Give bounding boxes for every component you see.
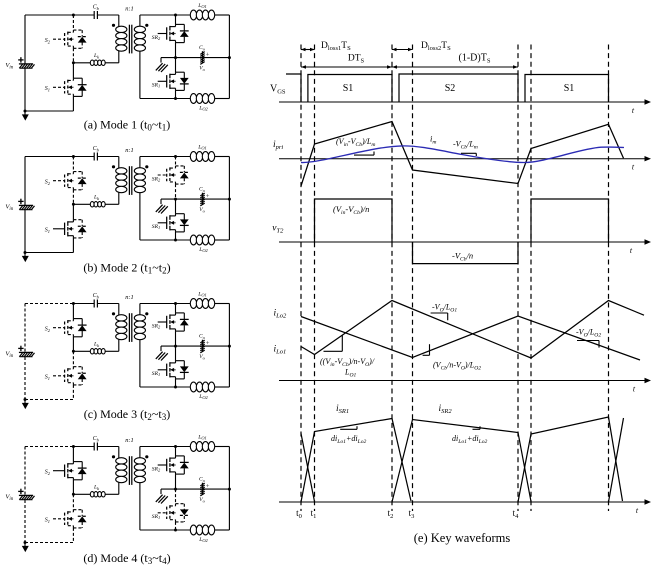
wire Dloss2 measure arrow xyxy=(392,41,451,52)
svg-text:S1: S1 xyxy=(45,228,50,234)
svg-text:SR2: SR2 xyxy=(152,466,161,472)
wire mid node to Lk xyxy=(73,350,90,352)
transistor S1 c xyxy=(53,351,87,399)
source Vin xyxy=(19,352,35,356)
ground input xyxy=(22,543,29,553)
svg-text:Cb: Cb xyxy=(93,436,100,442)
node top rail junction xyxy=(72,14,75,17)
svg-text:DTS: DTS xyxy=(348,54,365,65)
node VGS axis xyxy=(279,99,651,115)
transistor SR1 b xyxy=(158,199,189,240)
wire (1-D)TS measure arrow xyxy=(392,53,518,69)
svg-text:Cb: Cb xyxy=(93,293,100,299)
svg-text:SR1: SR1 xyxy=(152,82,160,88)
wire Lo1 to output rail xyxy=(215,14,230,16)
slope mark iLo2 falling xyxy=(577,341,599,348)
svg-text:Vin: Vin xyxy=(5,203,13,212)
node iLo axis xyxy=(279,378,651,394)
wire Dloss1 measure arrow xyxy=(301,41,351,52)
timing grid dashed verticals t0 t1 t2 t3 t4 t5 t6 xyxy=(301,45,609,512)
wire left rail upper xyxy=(24,304,26,353)
svg-text:S2: S2 xyxy=(45,469,51,475)
wire secondary mid xyxy=(161,57,229,59)
svg-text:Dloss1TS: Dloss1TS xyxy=(321,41,351,52)
transistor SR2 c xyxy=(158,304,189,347)
inductor Lo1 xyxy=(190,299,214,309)
transformer primary dot xyxy=(112,24,115,27)
node SR1 source xyxy=(174,386,177,389)
slope mark iLo1 rising xyxy=(324,335,343,351)
transistor SR2 b xyxy=(158,157,189,200)
wire secondary mid xyxy=(161,345,229,347)
ground secondary xyxy=(156,346,168,360)
svg-text:n:1: n:1 xyxy=(125,147,134,154)
wire DTS measure arrow xyxy=(301,54,392,69)
transistor S1 a xyxy=(53,63,87,111)
node top rail junction xyxy=(72,445,75,448)
wire iLo2 waveform xyxy=(301,316,640,360)
wire Lk to primary winding xyxy=(105,51,119,63)
inductor Lo1 xyxy=(190,10,214,20)
wire left rail upper xyxy=(24,15,26,64)
svg-text:Lk: Lk xyxy=(93,53,100,59)
wire input top rail left xyxy=(25,156,73,158)
svg-text:SR1: SR1 xyxy=(152,514,160,520)
svg-text:LO1: LO1 xyxy=(344,368,356,379)
node SR2 drain xyxy=(174,445,177,448)
node primary mid xyxy=(72,350,75,353)
wire input top rail left xyxy=(25,14,73,16)
transistor S1 b xyxy=(53,204,87,252)
svg-text:Cb: Cb xyxy=(93,4,100,10)
svg-text:Lk: Lk xyxy=(93,342,100,348)
svg-text:+: + xyxy=(206,340,210,347)
wire Lo2 to output rail xyxy=(215,98,230,100)
transformer secondary dot xyxy=(145,455,148,458)
wire VGS S2 pulse xyxy=(399,74,518,102)
label Vin plus xyxy=(18,199,23,204)
svg-text:SR1: SR1 xyxy=(152,224,160,230)
svg-text:(a) Mode 1 (t0~t1): (a) Mode 1 (t0~t1) xyxy=(84,117,170,132)
svg-text:diLo1+diLo2: diLo1+diLo2 xyxy=(452,434,487,445)
svg-text:iLo1: iLo1 xyxy=(274,345,287,356)
wire left rail lower xyxy=(24,500,26,543)
svg-text:S1: S1 xyxy=(45,86,50,92)
wire im magnetizing current blue xyxy=(301,146,624,163)
svg-text:((Vin-VCb)/n-VO)/: ((Vin-VCb)/n-VO)/ xyxy=(320,357,375,368)
node bottom left xyxy=(24,251,27,254)
svg-text:S2: S2 xyxy=(45,326,51,332)
transformer primary dot xyxy=(112,165,115,168)
svg-text:SR2: SR2 xyxy=(152,35,161,41)
capacitor Cb xyxy=(94,11,97,19)
svg-text:(e) Key waveforms: (e) Key waveforms xyxy=(414,531,511,545)
svg-text:(Vin-VCb)/Lm: (Vin-VCb)/Lm xyxy=(336,137,375,148)
inductor Lo1 xyxy=(190,442,214,452)
wire mid node to Lk xyxy=(73,62,90,64)
transistor SR2 a xyxy=(158,15,189,58)
wire left rail lower xyxy=(24,357,26,400)
capacitor Co xyxy=(200,483,204,496)
source Vin xyxy=(19,64,35,68)
svg-text:LO1: LO1 xyxy=(197,144,207,150)
transformer core xyxy=(129,25,131,54)
ground secondary xyxy=(156,489,168,503)
inductor Lo2 xyxy=(190,382,214,392)
wire bottom rail xyxy=(25,110,73,112)
node primary mid xyxy=(72,61,75,64)
transformer core xyxy=(129,313,131,342)
svg-text:(b) Mode 2 (t1~t2): (b) Mode 2 (t1~t2) xyxy=(83,260,170,275)
wire output right rail xyxy=(228,304,230,388)
svg-text:S1: S1 xyxy=(45,375,50,381)
wire mid node to Lk xyxy=(73,493,90,495)
svg-text:n:1: n:1 xyxy=(125,437,134,444)
transformer T1 primary winding xyxy=(116,458,127,483)
svg-text:t: t xyxy=(633,385,636,394)
svg-text:iSR2: iSR2 xyxy=(439,404,453,415)
node secondary mid xyxy=(174,56,177,59)
transistor S2 c xyxy=(53,304,87,352)
node SR1 source xyxy=(174,97,177,100)
svg-text:-VCb/n: -VCb/n xyxy=(452,251,473,263)
wire VGS previous S2 pulse tail xyxy=(286,74,301,102)
transformer primary dot xyxy=(112,312,115,315)
node bottom left xyxy=(24,398,27,401)
ground input xyxy=(22,111,29,121)
transformer secondary winding xyxy=(134,26,145,51)
capacitor Cb xyxy=(94,443,97,451)
wire secondary bottom xyxy=(140,193,191,241)
svg-text:Vin: Vin xyxy=(5,350,13,359)
capacitor Co xyxy=(200,193,204,206)
svg-text:t: t xyxy=(632,163,635,172)
wire Lo1 to output rail xyxy=(215,446,230,448)
transformer T1 primary winding xyxy=(116,168,127,193)
capacitor Co xyxy=(200,340,204,353)
node top rail junction xyxy=(72,155,75,158)
node SR2 drain xyxy=(174,302,177,305)
svg-text:(c) Mode 3 (t2~t3): (c) Mode 3 (t2~t3) xyxy=(84,407,170,422)
transformer primary dot xyxy=(112,455,115,458)
svg-text:SR2: SR2 xyxy=(152,323,161,329)
inductor Lo2 xyxy=(190,94,214,104)
slope mark iSR2 xyxy=(473,426,481,429)
wire output right rail xyxy=(228,157,230,241)
svg-text:LO1: LO1 xyxy=(197,291,207,297)
svg-text:vT2: vT2 xyxy=(272,223,284,234)
wire Lo2 to output rail xyxy=(215,239,230,241)
wire output right rail xyxy=(228,15,230,99)
slope mark ipri rising xyxy=(354,152,374,156)
wire left rail upper xyxy=(24,157,26,206)
wire bottom rail xyxy=(25,399,73,401)
slope mark ipri falling xyxy=(461,153,476,156)
svg-text:LO2: LO2 xyxy=(198,394,208,400)
svg-text:+: + xyxy=(206,483,210,490)
wire Lk to primary winding xyxy=(105,482,119,494)
transistor SR1 a xyxy=(158,58,189,99)
ground secondary xyxy=(156,199,168,213)
ground input xyxy=(22,400,29,410)
svg-text:Vin: Vin xyxy=(5,62,13,71)
transistor S2 d xyxy=(53,447,87,495)
wire vT2 second positive pulse xyxy=(531,199,609,242)
label Vin plus xyxy=(18,57,23,62)
svg-text:VGS: VGS xyxy=(270,84,286,96)
wire output right rail xyxy=(228,447,230,531)
transistor S1 d xyxy=(53,494,87,542)
source Vin xyxy=(19,205,35,209)
node bottom left xyxy=(24,110,27,113)
svg-text:LO2: LO2 xyxy=(198,537,208,543)
wire input top rail to Cb xyxy=(73,156,94,158)
svg-text:S1: S1 xyxy=(343,83,354,94)
label Vin plus xyxy=(18,346,23,351)
svg-text:S2: S2 xyxy=(445,83,456,94)
svg-text:Lk: Lk xyxy=(93,195,100,201)
inductor Lk xyxy=(90,202,105,207)
wire Lo1 to output rail xyxy=(215,303,230,305)
node output rail mid xyxy=(228,56,231,59)
svg-text:im: im xyxy=(430,134,436,146)
node output rail mid xyxy=(228,345,231,348)
wire secondary mid xyxy=(161,198,229,200)
inductor Lk xyxy=(90,492,105,497)
wire Lk to primary winding xyxy=(105,339,119,351)
svg-text:S2: S2 xyxy=(45,38,51,44)
svg-text:n:1: n:1 xyxy=(125,6,134,13)
transformer T1 primary winding xyxy=(116,315,127,340)
node primary mid xyxy=(72,203,75,206)
transformer core xyxy=(129,166,131,195)
svg-text:LO2: LO2 xyxy=(198,105,208,111)
wire vT2 positive pulse xyxy=(315,199,393,242)
transformer secondary dot xyxy=(145,165,148,168)
wire Lo1 to output rail xyxy=(215,156,230,158)
svg-text:SR2: SR2 xyxy=(152,176,161,182)
node secondary mid xyxy=(174,345,177,348)
svg-text:t1: t1 xyxy=(311,508,317,520)
transistor SR1 d xyxy=(158,489,189,530)
svg-text:(VCb/n-VO)/LO2: (VCb/n-VO)/LO2 xyxy=(433,361,481,372)
svg-text:S2: S2 xyxy=(45,179,51,185)
svg-text:Vo: Vo xyxy=(199,66,205,72)
wire Lo2 to output rail xyxy=(215,529,230,531)
wire Cb to transformer xyxy=(97,157,118,169)
wire ipri waveform xyxy=(301,122,624,187)
wire secondary bottom xyxy=(140,483,191,531)
inductor Lk xyxy=(90,60,105,65)
svg-text:t: t xyxy=(632,106,635,115)
svg-text:-VO/LO1: -VO/LO1 xyxy=(432,302,457,313)
wire iSR2 turn off tail xyxy=(301,434,315,502)
transformer secondary dot xyxy=(145,24,148,27)
svg-text:+: + xyxy=(206,51,210,58)
wire vT2 negative pulse xyxy=(413,242,519,264)
transformer secondary winding xyxy=(134,458,145,483)
svg-text:ipri: ipri xyxy=(273,140,283,151)
wire secondary mid xyxy=(161,488,229,490)
inductor Lk xyxy=(90,349,105,354)
transformer T1 primary winding xyxy=(116,26,127,51)
transformer core xyxy=(129,456,131,485)
wire input top rail left xyxy=(25,303,73,305)
wire bottom rail xyxy=(25,252,73,254)
wire input top rail left xyxy=(25,446,73,448)
wire secondary top xyxy=(140,15,191,26)
wire input top rail to Cb xyxy=(73,446,94,448)
wire Cb to transformer xyxy=(97,304,118,316)
transistor SR1 c xyxy=(158,346,189,387)
wire input top rail to Cb xyxy=(73,14,94,16)
wire iSR1 first conduction xyxy=(301,419,411,503)
ground secondary xyxy=(156,58,168,72)
svg-text:-VO/LO2: -VO/LO2 xyxy=(576,327,601,338)
wire iSR2 second rise xyxy=(609,418,624,502)
svg-text:Vo: Vo xyxy=(199,497,205,503)
svg-text:S1: S1 xyxy=(45,518,50,524)
wire left rail lower xyxy=(24,210,26,253)
wire secondary top xyxy=(140,157,191,168)
wire Lk to primary winding xyxy=(105,192,119,204)
wire input top rail to Cb xyxy=(73,303,94,305)
node SR1 source xyxy=(174,239,177,242)
node bottom left xyxy=(24,541,27,544)
label Vin plus xyxy=(18,489,23,494)
capacitor Cb xyxy=(94,300,97,308)
inductor Lo2 xyxy=(190,235,214,245)
node secondary mid xyxy=(174,198,177,201)
node SR2 drain xyxy=(174,14,177,17)
slope mark iLo1 falling xyxy=(431,313,448,320)
capacitor Co xyxy=(200,51,204,64)
svg-text:-VCb/Lm: -VCb/Lm xyxy=(453,140,478,151)
svg-text:diLo1+diLo2: diLo1+diLo2 xyxy=(331,434,366,445)
svg-text:LO1: LO1 xyxy=(197,3,207,9)
wire iSR1 second conduction xyxy=(518,417,623,502)
wire VGS S1 second pulse xyxy=(525,75,609,103)
svg-text:+: + xyxy=(206,193,210,200)
node SR1 source xyxy=(174,529,177,532)
source Vin xyxy=(19,495,35,499)
wire Cb to transformer xyxy=(97,447,118,459)
svg-text:t: t xyxy=(636,506,639,515)
svg-text:Cb: Cb xyxy=(93,146,100,152)
svg-text:S1: S1 xyxy=(564,83,575,94)
node ipri axis xyxy=(279,156,651,172)
transformer secondary dot xyxy=(145,312,148,315)
svg-text:(Vin-VCb)/n: (Vin-VCb)/n xyxy=(333,204,369,216)
node top rail junction xyxy=(72,302,75,305)
wire mid node to Lk xyxy=(73,203,90,205)
slope mark iLo2 rising xyxy=(423,344,430,355)
wire Cb to transformer xyxy=(97,15,118,27)
svg-text:(1-D)TS: (1-D)TS xyxy=(459,53,491,65)
inductor Lo1 xyxy=(190,152,214,162)
node SR2 drain xyxy=(174,155,177,158)
wire bottom rail xyxy=(25,542,73,544)
transistor S2 a xyxy=(53,15,87,63)
wire secondary top xyxy=(140,447,191,458)
wire left rail upper xyxy=(24,447,26,496)
transistor SR2 d xyxy=(158,447,189,490)
svg-text:LO1: LO1 xyxy=(197,434,207,440)
svg-text:iLo2: iLo2 xyxy=(274,309,288,320)
wire secondary bottom xyxy=(140,340,191,388)
transformer secondary winding xyxy=(134,315,145,340)
svg-text:t3: t3 xyxy=(409,508,415,520)
node output rail mid xyxy=(228,488,231,491)
node primary mid xyxy=(72,493,75,496)
svg-text:Vo: Vo xyxy=(199,207,205,213)
svg-text:Dloss2TS: Dloss2TS xyxy=(421,41,451,52)
svg-text:Lk: Lk xyxy=(93,485,100,491)
node iSR axis xyxy=(279,499,651,515)
svg-text:LO2: LO2 xyxy=(198,247,208,253)
wire left rail lower xyxy=(24,69,26,112)
inductor Lo2 xyxy=(190,525,214,535)
svg-text:n:1: n:1 xyxy=(125,294,134,301)
capacitor Cb xyxy=(94,153,97,161)
transistor S2 b xyxy=(53,157,87,205)
svg-text:Vin: Vin xyxy=(5,493,13,502)
svg-text:t: t xyxy=(630,246,633,255)
wire secondary bottom xyxy=(140,51,191,99)
wire iSR2 conduction xyxy=(392,420,531,503)
node output rail mid xyxy=(228,198,231,201)
svg-text:Vo: Vo xyxy=(199,354,205,360)
svg-text:(d) Mode 4 (t3~t4): (d) Mode 4 (t3~t4) xyxy=(83,551,170,566)
slope mark iSR1 xyxy=(340,426,357,429)
svg-text:iSR1: iSR1 xyxy=(336,404,349,415)
wire VGS S1 pulse xyxy=(308,75,392,103)
wire secondary top xyxy=(140,304,191,315)
transformer secondary winding xyxy=(134,168,145,193)
wire iLo1 waveform xyxy=(301,301,644,359)
node vT2 axis xyxy=(279,239,651,255)
wire Lo2 to output rail xyxy=(215,386,230,388)
svg-text:SR1: SR1 xyxy=(152,371,160,377)
ground input xyxy=(22,253,29,263)
node secondary mid xyxy=(174,488,177,491)
